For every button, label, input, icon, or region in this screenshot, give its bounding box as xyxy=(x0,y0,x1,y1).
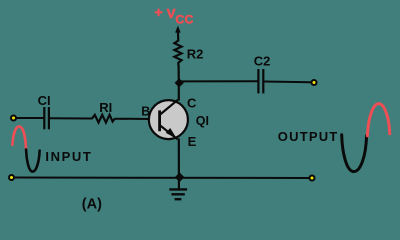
svg-text:C2: C2 xyxy=(254,54,271,69)
input sine red half xyxy=(12,127,26,151)
resistor R2 xyxy=(174,41,181,67)
input top terminal xyxy=(11,116,16,121)
wire terminal to C1 xyxy=(17,117,44,119)
bottom right terminal xyxy=(310,176,315,181)
wire C2 to output terminal xyxy=(264,81,311,84)
output sine red half xyxy=(367,104,389,136)
svg-text:OUTPUT: OUTPUT xyxy=(278,129,339,144)
Q1 base bar xyxy=(158,110,161,131)
emitter wire xyxy=(178,139,180,176)
svg-text:INPUT: INPUT xyxy=(45,149,92,164)
wire C1 to R1 xyxy=(50,117,93,119)
svg-text:CC: CC xyxy=(176,12,194,26)
capacitor C2 xyxy=(258,69,263,93)
capacitor C1 xyxy=(44,107,49,129)
bottom rail wire xyxy=(15,177,309,180)
svg-text:C: C xyxy=(187,95,197,110)
Q1 collector stroke xyxy=(160,100,178,115)
output sine black half xyxy=(342,135,367,172)
wire R2 to junction xyxy=(178,66,180,85)
wire junction to C2 xyxy=(180,80,258,82)
VCC arrow xyxy=(175,26,181,42)
ground symbol xyxy=(169,180,187,199)
ground junction node xyxy=(175,172,185,182)
svg-text:QI: QI xyxy=(196,114,209,128)
svg-text:RI: RI xyxy=(99,100,112,115)
node junction collector/C2 xyxy=(175,78,184,87)
svg-text:V: V xyxy=(167,6,176,21)
svg-text:E: E xyxy=(188,134,197,149)
wire R1 to base xyxy=(115,118,151,120)
resistor R1 xyxy=(92,115,115,123)
svg-text:(A): (A) xyxy=(82,196,102,212)
bottom left terminal xyxy=(9,175,14,180)
output top terminal xyxy=(312,80,317,85)
svg-text:R2: R2 xyxy=(187,47,204,62)
input sine black half xyxy=(26,150,39,172)
Q1 emitter arrowhead xyxy=(166,128,177,139)
+VCC label xyxy=(155,4,194,26)
svg-text:+: + xyxy=(155,4,163,20)
Q1 emitter stroke xyxy=(160,125,178,139)
svg-text:CI: CI xyxy=(38,93,51,108)
collector wire xyxy=(178,82,180,101)
transistor Q1 body xyxy=(149,100,188,139)
